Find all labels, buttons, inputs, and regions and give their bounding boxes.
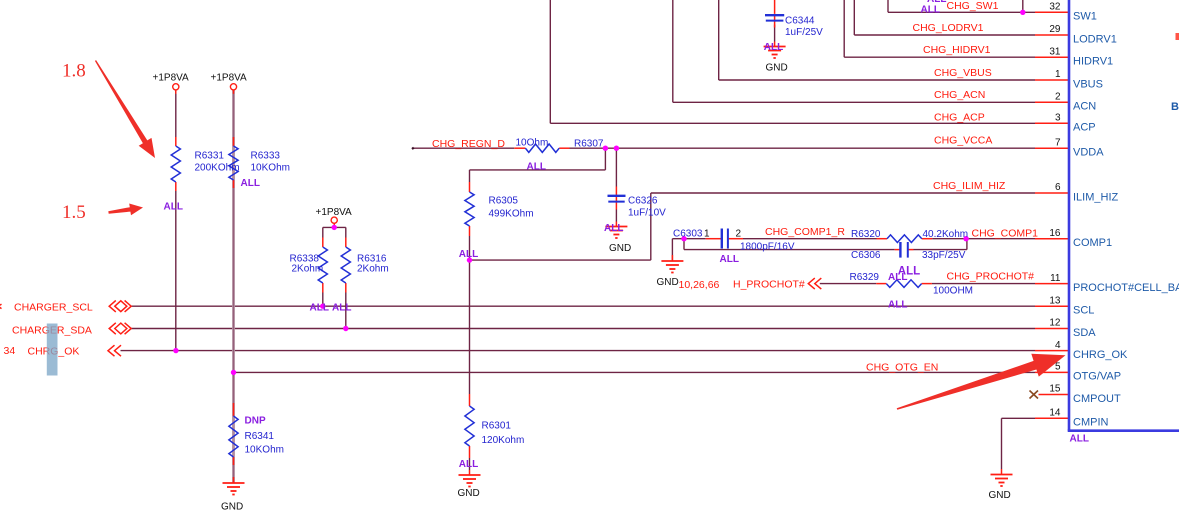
power symbol +1P8VA (R6331) <box>173 84 179 94</box>
svg-text:499KOhm: 499KOhm <box>489 209 534 220</box>
resistor R6316 2Kohm <box>341 247 350 283</box>
svg-text:ALL: ALL <box>310 302 329 313</box>
node CHG_VCCA junction 2 <box>614 146 619 151</box>
svg-text:7: 7 <box>1055 137 1061 148</box>
resistor R6329 100OHM <box>886 280 921 288</box>
svg-text:GND: GND <box>766 63 788 74</box>
wire +1P8VA split <box>323 226 346 228</box>
wire SW1 right vertical <box>1022 0 1024 12</box>
wire net CHG_COMP1 <box>966 238 1035 240</box>
port H_PROCHOT# (input chevron) <box>808 278 821 289</box>
capacitor C6326 1uF/10V <box>608 196 626 202</box>
svg-text:1uF/10V: 1uF/10V <box>628 207 666 218</box>
svg-text:ALL: ALL <box>927 0 946 5</box>
wire highlighted R6333/R6341 branch <box>232 91 235 483</box>
wire ILIM riser <box>650 193 652 260</box>
svg-text:ALL: ALL <box>459 459 478 470</box>
no-connect X at CMPOUT pin 15 <box>1030 391 1039 399</box>
resistor R6338 2Kohm <box>318 247 327 283</box>
svg-text:5: 5 <box>1055 362 1061 373</box>
svg-text:CHG_ACP: CHG_ACP <box>934 112 985 124</box>
svg-text:ALL: ALL <box>332 302 351 313</box>
wire C6344 to ground <box>774 25 776 42</box>
svg-text:SW1: SW1 <box>1073 11 1097 23</box>
wire R6338 top <box>322 227 324 237</box>
svg-text:1: 1 <box>704 228 710 239</box>
svg-text:16: 16 <box>1049 228 1061 239</box>
svg-text:CHG_VCCA: CHG_VCCA <box>934 135 992 147</box>
svg-text:VBUS: VBUS <box>1073 78 1103 90</box>
port CHARGER_SCL <box>109 301 131 312</box>
svg-text:1uF/25V: 1uF/25V <box>785 27 823 38</box>
svg-text:1: 1 <box>1055 69 1061 80</box>
node R6316-SDA junction <box>343 326 348 331</box>
power symbol +1P8VA (R6338/R6316) <box>331 217 337 227</box>
svg-text:GND: GND <box>989 490 1011 501</box>
node R6305 bottom junction <box>467 257 472 262</box>
resistor R6331 200KOhm <box>171 146 180 182</box>
wire net CHARGER_SDA <box>131 328 1035 330</box>
wire bypass lower left <box>684 249 895 251</box>
svg-text:GND: GND <box>221 502 243 513</box>
power symbol +1P8VA (R6333) <box>230 84 236 94</box>
wire net CHG_OTG_EN <box>234 371 1036 373</box>
svg-text:ALL: ALL <box>164 202 183 213</box>
svg-text:+1P8VA: +1P8VA <box>316 207 353 218</box>
wire horizontal to R6305 <box>470 169 606 171</box>
wire bypass right rise <box>966 239 968 250</box>
svg-text:CHG_VBUS: CHG_VBUS <box>934 67 992 79</box>
resistor R6305 499KOhm <box>465 192 474 226</box>
op-amp/charger IC U-body border (left & bottom edge) <box>1068 0 1071 431</box>
svg-text:1800pF/16V: 1800pF/16V <box>740 241 795 252</box>
svg-text:ALL: ALL <box>720 254 739 265</box>
wire net CHG_VCCA <box>570 147 1036 149</box>
svg-text:15: 15 <box>1049 384 1061 395</box>
svg-text:GND: GND <box>458 488 480 499</box>
wire bypass left drop <box>683 239 685 250</box>
wire net CHG_COMP1_R <box>743 238 877 240</box>
wire bypass lower right <box>914 249 967 251</box>
wire net CHG_PROCHOT# <box>932 283 1035 285</box>
svg-text:LODRV1: LODRV1 <box>1073 33 1117 45</box>
node CHG_OTG_EN junction <box>231 370 236 375</box>
svg-text:CHG_HIDRV1: CHG_HIDRV1 <box>923 44 991 56</box>
resistor R6307 10Ohm <box>525 144 559 152</box>
wire R6316 to SDA <box>345 293 347 329</box>
svg-text:GND: GND <box>609 243 631 254</box>
ground at C6303 <box>661 261 683 273</box>
svg-text:40.2Kohm: 40.2Kohm <box>923 229 969 240</box>
wire +1P8VA to R6331 <box>175 91 177 138</box>
svg-text:10Ohm: 10Ohm <box>516 138 549 149</box>
resistor R6341 10KOhm DNP <box>229 416 238 457</box>
node R6331-CHRG_OK junction <box>173 348 178 353</box>
wire R6333 top core <box>233 91 235 138</box>
wire net CHG_LODRV1 <box>854 34 1035 36</box>
svg-text:R6307: R6307 <box>574 138 604 149</box>
port CHARGER_SDA <box>109 323 131 334</box>
wire to R6341 <box>233 372 235 403</box>
wire R6331 to CHRG_OK <box>175 191 177 351</box>
annotation arrow (1.8 -> R6331) <box>95 60 155 158</box>
svg-text:100OHM: 100OHM <box>933 286 973 297</box>
svg-text:R6333: R6333 <box>251 151 281 162</box>
svg-text:12: 12 <box>1049 318 1061 329</box>
svg-text:H_PROCHOT#: H_PROCHOT# <box>733 278 805 290</box>
selection highlight bar <box>47 324 58 376</box>
svg-text:2: 2 <box>736 228 742 239</box>
svg-text:3: 3 <box>1055 113 1061 124</box>
svg-text:DNP: DNP <box>245 416 266 427</box>
svg-text:R6341: R6341 <box>245 431 275 442</box>
wire R6301 to ground <box>469 458 471 470</box>
svg-text:ALL: ALL <box>1070 433 1089 444</box>
cut-off port at left edge <box>0 304 2 308</box>
svg-text:CHG_REGN_D: CHG_REGN_D <box>432 138 505 150</box>
svg-text:C6303: C6303 <box>673 228 703 239</box>
svg-text:1.8: 1.8 <box>62 61 86 82</box>
wire net CHG_VBUS <box>719 79 1035 81</box>
svg-text:2Kohm: 2Kohm <box>292 264 324 275</box>
svg-text:R6305: R6305 <box>489 195 519 206</box>
wire R6320 to junction <box>932 238 966 240</box>
svg-text:CMPIN: CMPIN <box>1073 417 1109 429</box>
ground at C6344 <box>764 47 786 59</box>
svg-text:10,26,66: 10,26,66 <box>679 279 720 291</box>
svg-text:ALL: ALL <box>764 42 783 53</box>
wire R6305 bottom to junction <box>469 236 471 260</box>
wire to C6326 <box>615 148 617 186</box>
node C6303 junction <box>681 236 686 241</box>
wire net CHRG_OK <box>121 350 1036 352</box>
wire LODRV1 vertical from top <box>853 0 855 35</box>
ground at R6301 <box>459 475 481 487</box>
svg-text:C6326: C6326 <box>628 195 658 206</box>
svg-text:CHG_COMP1_R: CHG_COMP1_R <box>765 226 845 238</box>
svg-text:ALL: ALL <box>527 162 546 173</box>
svg-text:2: 2 <box>1055 92 1061 103</box>
wire R6338 to SCL <box>322 293 324 307</box>
svg-text:PROCHOT#CELL_BA: PROCHOT#CELL_BA <box>1073 282 1179 294</box>
wire net CHG_ILIM_HIZ <box>651 192 1035 194</box>
svg-text:+1P8VA: +1P8VA <box>153 72 190 83</box>
svg-text:34: 34 <box>4 345 16 357</box>
annotation arrow (to CHRG_OK pin) <box>897 354 1066 410</box>
svg-text:120Kohm: 120Kohm <box>482 435 525 446</box>
wire horizontal to ILIM riser <box>470 259 651 261</box>
svg-text:B: B <box>1171 101 1179 113</box>
wire down to ground at C6303 <box>671 239 673 260</box>
svg-text:C6306: C6306 <box>851 250 881 261</box>
svg-text:CHG_SW1: CHG_SW1 <box>947 0 999 12</box>
svg-text:R6329: R6329 <box>850 272 880 283</box>
wire C6303 pin1 to ground branch <box>672 238 705 240</box>
svg-text:VDDA: VDDA <box>1073 147 1104 159</box>
node CHG_COMP1 junction <box>963 236 968 241</box>
node CHG_VCCA junction 1 <box>603 146 608 151</box>
svg-text:CHG_PROCHOT#: CHG_PROCHOT# <box>947 271 1035 283</box>
svg-text:4: 4 <box>1055 340 1061 351</box>
svg-text:10KOhm: 10KOhm <box>251 163 290 174</box>
capacitor C6306 33pF/25V <box>900 242 907 258</box>
wire net CHG_ACP <box>550 122 1035 124</box>
wire ACP vertical from top <box>549 0 551 123</box>
wire CMPIN down to ground <box>1001 418 1003 469</box>
svg-text:R6301: R6301 <box>482 421 512 432</box>
wire net CHG_REGN_D left of R6307 <box>413 147 515 149</box>
svg-text:11: 11 <box>1050 273 1061 284</box>
resistor R6301 120Kohm <box>465 406 474 446</box>
wire CMPIN <box>1002 417 1036 419</box>
wire R6341 to ground <box>233 465 235 483</box>
svg-text:CMPOUT: CMPOUT <box>1073 393 1121 405</box>
svg-text:CHRG_OK: CHRG_OK <box>1073 349 1128 361</box>
svg-text:ALL: ALL <box>604 223 623 234</box>
wire net CHARGER_SCL <box>131 305 1035 307</box>
port CHRG_OK (input chevron) <box>108 345 121 356</box>
wire net CHG_SW1 <box>888 11 1035 13</box>
wire HIDRV1 vertical from top <box>843 0 845 57</box>
svg-text:ALL: ALL <box>921 4 940 15</box>
svg-text:CHARGER_SCL: CHARGER_SCL <box>14 301 93 313</box>
svg-text:ALL: ALL <box>241 178 260 189</box>
svg-text:31: 31 <box>1049 46 1061 57</box>
svg-text:ALL: ALL <box>888 299 907 310</box>
svg-text:COMP1: COMP1 <box>1073 237 1112 249</box>
svg-text:ILIM_HIZ: ILIM_HIZ <box>1073 191 1119 203</box>
svg-text:6: 6 <box>1055 182 1061 193</box>
svg-text:CHG_COMP1: CHG_COMP1 <box>972 227 1039 239</box>
svg-text:SDA: SDA <box>1073 327 1096 339</box>
svg-text:32: 32 <box>1049 2 1061 13</box>
resistor R6333 10KOhm <box>229 146 238 180</box>
svg-text:OTG/VAP: OTG/VAP <box>1073 371 1121 383</box>
svg-text:CHG_LODRV1: CHG_LODRV1 <box>913 22 984 34</box>
svg-text:ACP: ACP <box>1073 122 1096 134</box>
wire ACN vertical from top <box>672 0 674 102</box>
svg-text:CHG_ILIM_HIZ: CHG_ILIM_HIZ <box>933 180 1006 192</box>
wire R6333 bottom core <box>233 188 235 372</box>
wire net CHG_ACN <box>673 101 1035 103</box>
ground at CMPIN <box>991 475 1013 487</box>
ground at R6341 <box>223 483 245 495</box>
svg-text:2Kohm: 2Kohm <box>357 264 389 275</box>
svg-text:1.5: 1.5 <box>62 202 86 223</box>
wire vertical down to R6301 <box>469 260 471 394</box>
svg-text:SCL: SCL <box>1073 305 1094 317</box>
svg-text:C6344: C6344 <box>785 16 815 27</box>
svg-text:CHG_ACN: CHG_ACN <box>934 89 985 101</box>
wire net CHG_HIDRV1 <box>844 56 1035 58</box>
wire VBUS vertical from top <box>718 0 720 80</box>
svg-text:ALL: ALL <box>459 249 478 260</box>
annotation arrow (1.5) <box>108 204 143 216</box>
wire junction to R6305 <box>604 148 606 170</box>
svg-text:33pF/25V: 33pF/25V <box>922 250 966 261</box>
svg-text:GND: GND <box>657 277 679 288</box>
node CHG_SW1 junction <box>1020 10 1025 15</box>
svg-text:+1P8VA: +1P8VA <box>211 72 248 83</box>
svg-text:CHG_OTG_EN: CHG_OTG_EN <box>866 362 938 374</box>
svg-text:ACN: ACN <box>1073 101 1096 113</box>
node +1P8VA split junction <box>332 225 337 230</box>
svg-text:10KOhm: 10KOhm <box>245 445 284 456</box>
resistor R6320 40.2Kohm <box>887 235 922 243</box>
svg-text:200KOhm: 200KOhm <box>195 163 240 174</box>
wire R6305 top <box>469 170 471 182</box>
svg-text:29: 29 <box>1049 24 1061 35</box>
wire C6326 to ground <box>615 210 617 222</box>
wire red tick at R6301 gnd <box>469 470 471 475</box>
wire SW1 left vertical <box>887 0 889 12</box>
capacitor C6303 1800pF/16V <box>722 229 728 249</box>
svg-text:13: 13 <box>1049 295 1061 306</box>
svg-text:HIDRV1: HIDRV1 <box>1073 56 1113 68</box>
wire power to split <box>333 223 335 227</box>
wire H_PROCHOT# to R6329 <box>820 283 877 285</box>
svg-text:14: 14 <box>1049 408 1061 419</box>
wire R6316 top <box>345 227 347 237</box>
capacitor C6344 1uF/25V <box>765 15 784 20</box>
ground at C6326 <box>605 227 627 239</box>
svg-text:R6320: R6320 <box>851 229 881 240</box>
node R6338-SCL junction <box>320 304 325 309</box>
svg-text:ALL: ALL <box>888 272 907 283</box>
svg-text:R6331: R6331 <box>195 151 225 162</box>
